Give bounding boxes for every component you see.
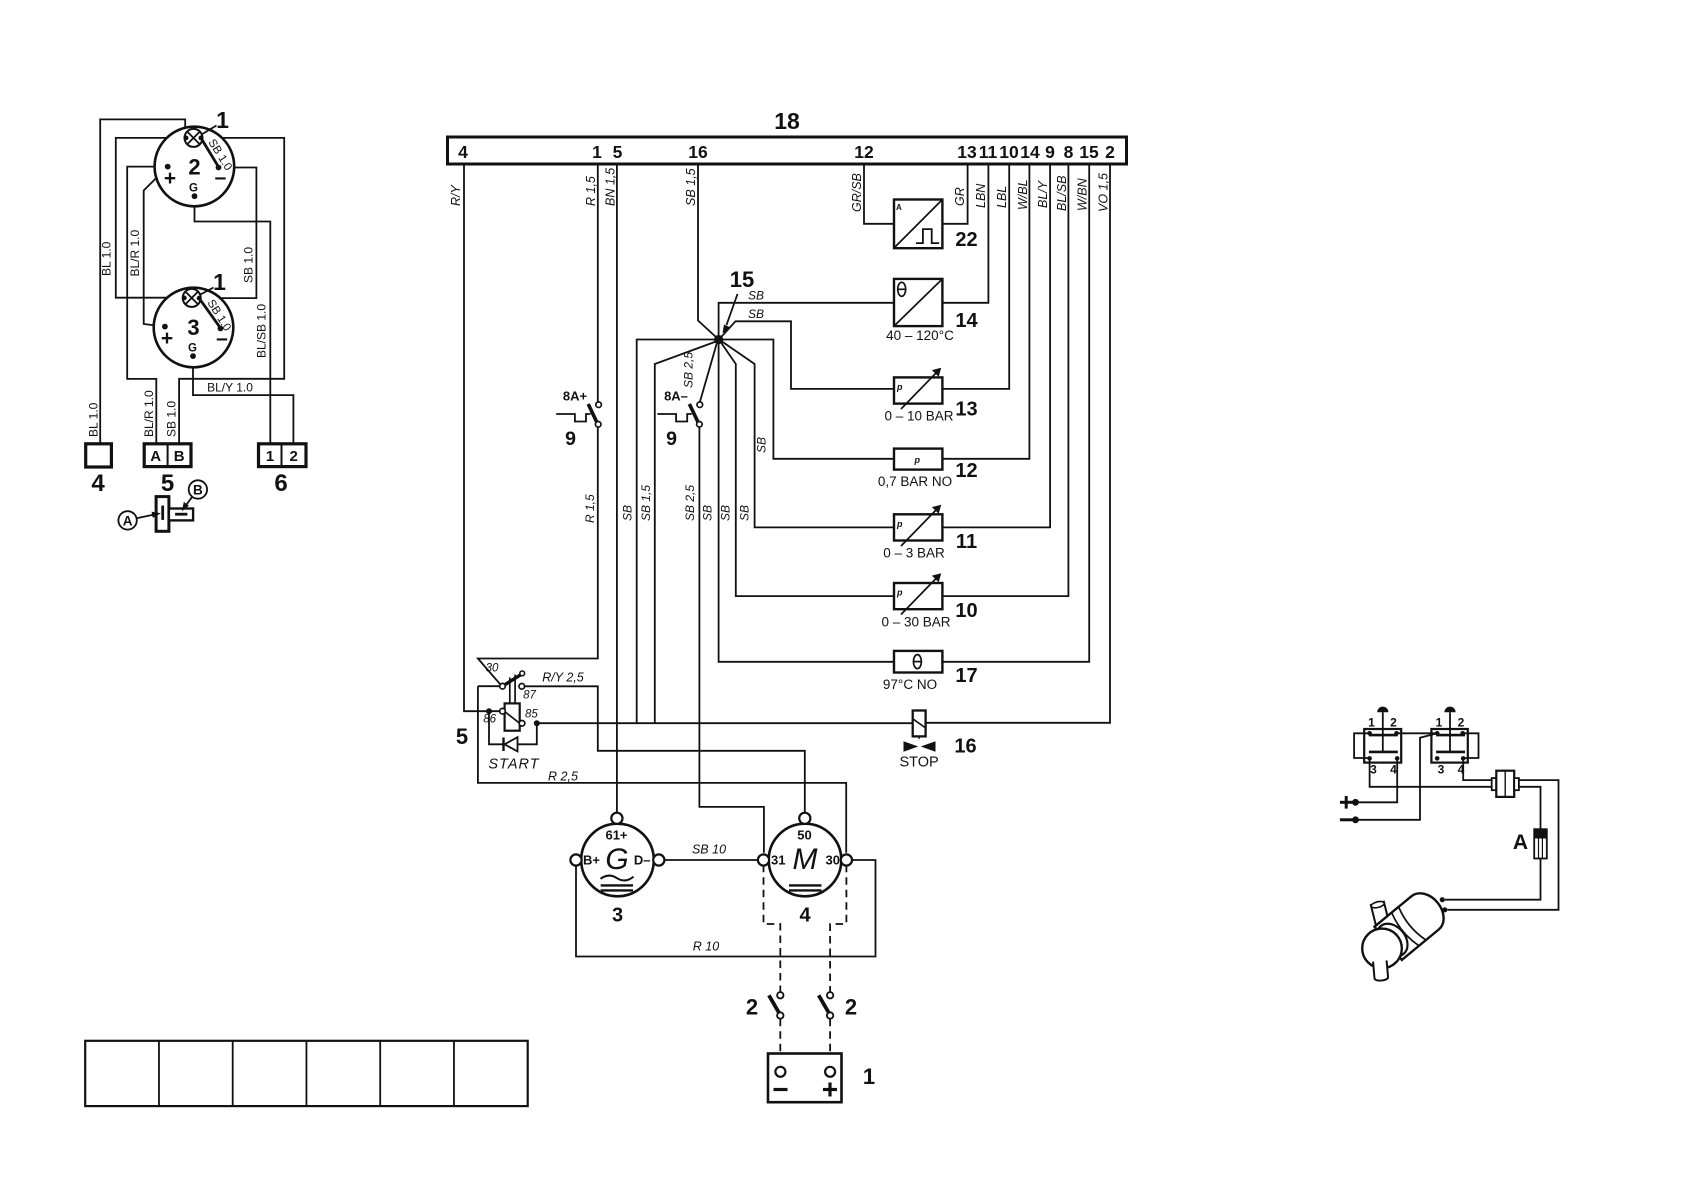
cable connector (barrel) <box>1492 771 1519 797</box>
main switch 2 (right) <box>819 992 834 1019</box>
svg-text:BL/Y 1.0: BL/Y 1.0 <box>207 381 253 395</box>
svg-text:SB 10: SB 10 <box>692 843 726 857</box>
svg-text:0,7 BAR NO: 0,7 BAR NO <box>878 474 952 489</box>
wire SB 1,5 node to ground rail <box>655 342 716 723</box>
svg-text:40 – 120°C: 40 – 120°C <box>886 328 954 343</box>
wire BN 1,5 pin 5 to generator 61+ <box>616 164 618 814</box>
battery 1 <box>768 1054 842 1103</box>
stub relay 30 to feed <box>478 685 500 687</box>
svg-text:3: 3 <box>187 315 199 340</box>
svg-text:VO 1,5: VO 1,5 <box>1097 173 1111 212</box>
svg-text:A: A <box>896 203 902 212</box>
svg-text:BL/R 1.0: BL/R 1.0 <box>142 390 156 437</box>
junction dot at relay 86 feed <box>486 708 492 714</box>
svg-text:9: 9 <box>666 428 677 450</box>
callout circle B <box>182 480 207 511</box>
wire R 2,5 relay 30 to starter 30 <box>478 686 846 853</box>
svg-text:5: 5 <box>613 142 623 162</box>
svg-text:16: 16 <box>688 142 708 162</box>
stop solenoid 16 <box>904 711 936 752</box>
svg-text:START: START <box>488 757 539 773</box>
svg-text:2: 2 <box>845 995 857 1020</box>
temperature sender 14 <box>894 279 942 326</box>
wire R 10 generator B+ to starter 30 <box>576 860 876 957</box>
svg-text:4: 4 <box>458 142 468 162</box>
wire fuse A to pump <box>1445 859 1541 900</box>
wire SB 1.0 gauge2 minus to lamp3 right <box>202 168 256 299</box>
wire W/BL unit 12 to pin 14 <box>942 164 1029 459</box>
connector 4 <box>86 444 112 467</box>
svg-text:p: p <box>896 382 903 392</box>
fuse holder detail (callout A/B) <box>156 497 193 532</box>
svg-text:SB: SB <box>701 505 715 521</box>
wire link pins 1-3 left switch <box>1354 733 1370 758</box>
svg-text:12: 12 <box>854 142 874 162</box>
wire BL/R 1.0 gauge2 plus to gauge3 plus <box>144 167 168 327</box>
svg-text:3: 3 <box>1370 763 1377 777</box>
junction dot at relay 85 <box>534 720 540 726</box>
svg-text:6: 6 <box>274 470 287 497</box>
svg-text:p: p <box>896 519 903 529</box>
svg-text:R 10: R 10 <box>693 940 719 954</box>
svg-text:14: 14 <box>1020 142 1040 162</box>
svg-text:31: 31 <box>771 853 785 868</box>
svg-text:SB 1.0: SB 1.0 <box>165 401 179 437</box>
starter motor 4 <box>758 813 852 897</box>
svg-text:1: 1 <box>216 107 229 133</box>
dashed wire starter 30 to main switch 2 <box>830 865 846 992</box>
pressure sender 13 <box>894 368 942 409</box>
svg-text:2: 2 <box>1390 716 1397 730</box>
wire lamp2 left to lamp3 left <box>116 138 185 298</box>
start relay 5 <box>483 663 538 731</box>
svg-text:18: 18 <box>774 108 800 134</box>
rocker switch left (pictorial) <box>1364 707 1401 777</box>
wire SB node to pressure sender 13 <box>721 321 895 389</box>
wire R/Y pin 4 to relay 86 <box>464 164 500 711</box>
svg-text:10: 10 <box>955 600 977 622</box>
wire R/Y 2,5 relay 87 to starter 50 <box>525 686 805 813</box>
svg-text:W/BL: W/BL <box>1016 179 1030 210</box>
svg-text:5: 5 <box>456 724 468 749</box>
svg-text:BL/SB 1.0: BL/SB 1.0 <box>255 304 269 358</box>
svg-text:9: 9 <box>565 428 576 450</box>
wire SB node to pressure sender 11 <box>722 342 894 528</box>
svg-text:p: p <box>914 455 921 465</box>
wire SB 10 generator D- to starter 31 <box>664 859 759 861</box>
wire R 1,5 pin 1 to breaker 8A+ <box>597 164 599 402</box>
svg-text:2: 2 <box>188 155 200 180</box>
wire SB node to pressure sender 10 <box>721 343 894 597</box>
tachometer unit 22 <box>894 200 942 249</box>
svg-text:BL/R 1.0: BL/R 1.0 <box>128 229 142 276</box>
generator 3 <box>570 813 664 897</box>
svg-text:LBL: LBL <box>995 186 1009 208</box>
svg-text:SB 1,5: SB 1,5 <box>639 485 653 521</box>
svg-text:R 1,5: R 1,5 <box>583 494 597 523</box>
callout circle A <box>118 511 160 529</box>
svg-text:10: 10 <box>999 142 1019 162</box>
svg-text:1: 1 <box>863 1064 875 1089</box>
diode across relay coil <box>489 711 537 751</box>
svg-text:8A+: 8A+ <box>563 389 588 404</box>
ground rail SB relay 85 to stop solenoid 16 <box>537 722 913 724</box>
svg-text:11: 11 <box>956 531 977 553</box>
svg-text:17: 17 <box>955 665 977 687</box>
svg-text:0 – 30 BAR: 0 – 30 BAR <box>881 615 950 630</box>
svg-text:9: 9 <box>1045 142 1055 162</box>
connector 5 <box>144 444 191 467</box>
svg-text:BL/Y: BL/Y <box>1036 179 1050 208</box>
wire SB node to thermal switch 17 <box>719 342 894 662</box>
svg-text:87: 87 <box>523 690 536 702</box>
pressure switch 12 <box>894 449 942 470</box>
gauge 3 (instrument) <box>154 288 234 368</box>
svg-text:B: B <box>174 448 185 465</box>
svg-text:50: 50 <box>797 828 811 843</box>
dashed wire starter 31 to main switch 2 <box>764 865 781 992</box>
wire plus supply to left pin4 <box>1356 758 1398 802</box>
wire LBL unit 13 to pin 10 <box>942 164 1009 389</box>
svg-text:A: A <box>123 513 133 528</box>
wire R 1,5 breaker 8A+ to relay 30 <box>478 427 598 685</box>
svg-text:R/Y 2,5: R/Y 2,5 <box>542 671 584 685</box>
svg-text:SB 1.0: SB 1.0 <box>242 247 256 283</box>
svg-text:30: 30 <box>486 663 499 675</box>
svg-text:G: G <box>605 843 628 876</box>
svg-text:M: M <box>793 843 818 876</box>
svg-text:2: 2 <box>290 448 298 465</box>
svg-text:1: 1 <box>213 269 226 295</box>
svg-text:0 – 3 BAR: 0 – 3 BAR <box>883 546 945 561</box>
wire GR unit 22 to pin 13 <box>942 164 967 224</box>
svg-text:1: 1 <box>1368 716 1375 730</box>
svg-text:86: 86 <box>483 714 496 726</box>
svg-text:8A–: 8A– <box>664 389 688 404</box>
svg-text:R 2,5: R 2,5 <box>548 770 578 784</box>
wire connector to fuse A <box>1519 787 1541 829</box>
svg-text:G: G <box>189 183 198 195</box>
minus terminal <box>1340 816 1359 823</box>
svg-text:SB 2,5: SB 2,5 <box>683 485 697 521</box>
svg-text:+: + <box>161 327 173 350</box>
fuel pump (pictorial) <box>1362 886 1451 981</box>
svg-text:GR: GR <box>953 187 967 206</box>
svg-text:0 – 10 BAR: 0 – 10 BAR <box>884 409 953 424</box>
svg-text:A: A <box>150 448 161 465</box>
svg-text:BL/SB: BL/SB <box>1055 176 1069 211</box>
wire BL/Y 1.0 gauge3 G to connector 6 pin 2 <box>193 356 293 444</box>
svg-text:W/BN: W/BN <box>1076 177 1090 211</box>
wire right pin4 to connector <box>1463 758 1492 780</box>
wire SB 1.0 lamp2 to gauge2 minus (internal) <box>201 138 219 167</box>
dashed wire switch to battery minus <box>779 1019 781 1066</box>
wire LBN unit 14 to pin 11 <box>942 164 988 303</box>
svg-text:STOP: STOP <box>899 755 938 771</box>
wire SB 2,5 breaker 8A- down to starter 31 <box>699 427 764 853</box>
wire left pin2 to right pin1 <box>1397 732 1438 734</box>
rocker switch right (pictorial) <box>1431 707 1467 777</box>
thermal switch 17 <box>894 651 942 673</box>
svg-text:GR/SB: GR/SB <box>850 173 864 212</box>
svg-text:1: 1 <box>1436 716 1443 730</box>
svg-text:SB: SB <box>621 505 635 521</box>
wire link pins 2-4 right switch <box>1463 733 1479 758</box>
svg-text:2: 2 <box>746 995 758 1020</box>
wire VO 1,5 pin 2 to stop solenoid 16 <box>926 164 1110 723</box>
wire SB 1.0 lamp3 to gauge3 minus (internal) <box>199 298 220 328</box>
svg-text:16: 16 <box>954 736 976 758</box>
svg-text:G: G <box>188 343 197 355</box>
wire minus supply to right pin1 <box>1356 733 1438 820</box>
wire SB 2,5 node to breaker 8A- <box>700 343 717 403</box>
svg-text:97°C NO: 97°C NO <box>883 677 937 692</box>
svg-text:B+: B+ <box>583 853 600 868</box>
pressure sender 11 <box>894 505 942 546</box>
connector 6 <box>259 444 307 467</box>
node 15 (star point) <box>714 335 723 344</box>
svg-text:SB: SB <box>748 307 764 321</box>
svg-text:13: 13 <box>957 142 977 162</box>
breaker 9 (8A-) <box>657 389 702 428</box>
svg-text:D–: D– <box>634 853 651 868</box>
wire BL/SB 1.0 gauge2 G to connector 6 pin 1 <box>195 196 271 444</box>
svg-text:p: p <box>896 588 903 598</box>
svg-text:R 1,5: R 1,5 <box>584 176 598 206</box>
pressure sender 10 <box>894 573 942 614</box>
svg-text:12: 12 <box>955 460 977 482</box>
svg-text:1: 1 <box>266 448 274 465</box>
wire BL/R 1.0 gauge2 plus to connector 5 pin A <box>127 167 166 444</box>
svg-text:13: 13 <box>955 399 977 421</box>
svg-text:SB 1,5: SB 1,5 <box>684 168 698 206</box>
svg-text:SB 2,5: SB 2,5 <box>682 352 696 388</box>
plus terminal <box>1340 796 1359 809</box>
svg-text:3: 3 <box>1438 763 1445 777</box>
connector 18 (engine cable connector bar) <box>448 137 1127 164</box>
wire GR/SB pin 12 to unit 22 <box>864 164 894 224</box>
svg-text:85: 85 <box>525 709 538 721</box>
svg-text:14: 14 <box>955 310 978 332</box>
svg-text:LBN: LBN <box>974 183 988 208</box>
svg-text:61+: 61+ <box>605 828 627 843</box>
svg-text:1: 1 <box>592 142 602 162</box>
svg-text:BN 1,5: BN 1,5 <box>604 168 618 206</box>
wire SB node to pressure switch 12 <box>723 340 895 459</box>
svg-text:SB: SB <box>719 505 733 521</box>
wire BL 1.0 from connector 4 to lamp of gauge 2 <box>100 119 185 443</box>
svg-text:4: 4 <box>1390 763 1397 777</box>
connector 18 pin numbers <box>458 142 1115 162</box>
wire BL/SB unit 10 to pin 8 <box>942 164 1068 596</box>
svg-text:BL 1.0: BL 1.0 <box>87 402 101 437</box>
svg-text:3: 3 <box>612 905 623 927</box>
svg-text:15: 15 <box>730 267 754 292</box>
svg-text:22: 22 <box>955 229 977 251</box>
svg-text:11: 11 <box>979 142 998 162</box>
svg-text:2: 2 <box>1105 142 1115 162</box>
wire connector to pump (upper path) <box>1448 780 1559 910</box>
svg-text:4: 4 <box>91 470 105 497</box>
svg-text:15: 15 <box>1079 142 1099 162</box>
fuse A <box>1534 829 1547 858</box>
svg-text:SB: SB <box>738 505 752 521</box>
gauge 2 (instrument) <box>155 127 235 207</box>
svg-text:4: 4 <box>799 905 811 927</box>
legend table (empty) <box>85 1041 528 1106</box>
wire W/BN unit 17 to pin 15 <box>942 164 1089 662</box>
svg-text:SB: SB <box>755 437 769 453</box>
svg-text:+: + <box>164 167 176 190</box>
wire SB 1.0 lamp2 right to connector 5 pin B <box>179 138 284 444</box>
dashed wire switch to battery plus <box>829 1019 831 1066</box>
wire left pin3 to connector <box>1370 758 1492 786</box>
wire SB node to temp sender 14 <box>719 303 894 337</box>
svg-text:BL 1.0: BL 1.0 <box>100 241 114 276</box>
svg-text:B: B <box>193 483 203 498</box>
wire SB node to ground rail (left drop) <box>637 340 715 723</box>
wire SB 1,5 pin 16 to node 15 <box>698 164 717 338</box>
svg-text:5: 5 <box>161 470 174 497</box>
breaker 9 (8A+) <box>556 389 601 428</box>
svg-text:A: A <box>1513 831 1528 854</box>
svg-text:30: 30 <box>826 853 840 868</box>
wire BL/Y unit 11 to pin 9 <box>942 164 1050 527</box>
main switch 2 (left) <box>769 992 784 1019</box>
svg-text:8: 8 <box>1064 142 1074 162</box>
svg-text:R/Y: R/Y <box>449 184 463 207</box>
svg-text:2: 2 <box>1458 716 1465 730</box>
